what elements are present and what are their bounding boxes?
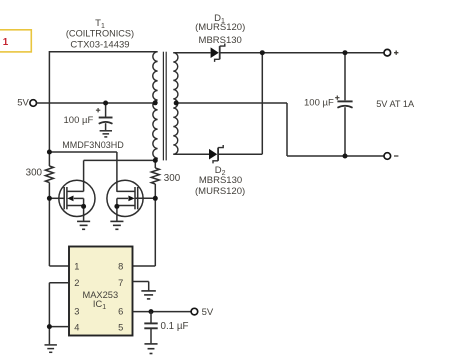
svg-text:MBRS130: MBRS130 — [199, 175, 242, 186]
svg-text:2: 2 — [74, 278, 79, 288]
svg-text:300: 300 — [164, 173, 181, 184]
svg-text:1: 1 — [3, 37, 9, 48]
svg-text:6: 6 — [118, 307, 123, 317]
svg-text:3: 3 — [74, 307, 79, 317]
svg-text:MMDF3N03HD: MMDF3N03HD — [62, 140, 124, 150]
svg-text:MBRS130: MBRS130 — [199, 35, 242, 46]
svg-text:100 µF: 100 µF — [304, 98, 334, 109]
svg-text:CTX03-14439: CTX03-14439 — [70, 39, 129, 50]
svg-text:7: 7 — [118, 278, 123, 288]
svg-text:5V: 5V — [17, 98, 29, 109]
svg-text:8: 8 — [118, 261, 123, 271]
svg-text:5V AT 1A: 5V AT 1A — [376, 99, 415, 109]
svg-text:0.1 µF: 0.1 µF — [161, 321, 189, 332]
svg-text:4: 4 — [74, 323, 79, 333]
svg-text:(COILTRONICS): (COILTRONICS) — [66, 29, 134, 39]
svg-text:1: 1 — [74, 261, 79, 271]
svg-text:(MURS120): (MURS120) — [195, 186, 245, 197]
svg-text:5: 5 — [118, 323, 123, 333]
svg-text:300: 300 — [26, 168, 43, 179]
svg-text:5V: 5V — [202, 307, 214, 318]
svg-text:(MURS120): (MURS120) — [195, 22, 245, 33]
svg-text:100 µF: 100 µF — [64, 115, 94, 126]
